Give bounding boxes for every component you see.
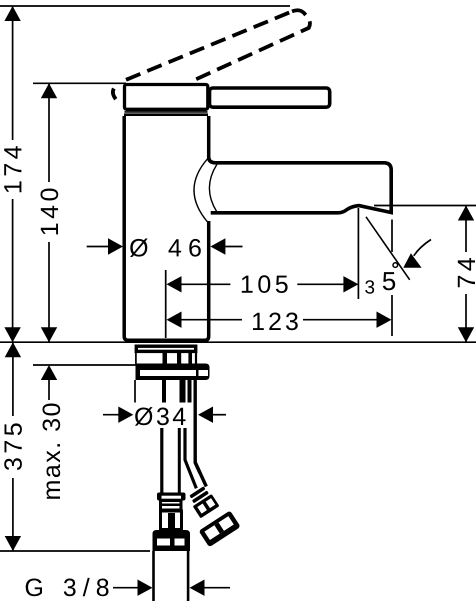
escutcheon bbox=[136, 346, 195, 351]
dimension 140 text bbox=[41, 188, 59, 234]
raised handle back-end dash bbox=[113, 89, 116, 100]
dimension 140 line bbox=[48, 83, 50, 342]
extension line aerator (105 right) bbox=[357, 208, 359, 299]
handle cap bbox=[125, 85, 208, 110]
reference line handle level (140) bbox=[33, 82, 126, 84]
joint lines under handle bbox=[125, 111, 208, 113]
straight connector neck bbox=[161, 501, 182, 512]
angled connector crimp ribs bbox=[189, 486, 209, 503]
straight connector hex body bbox=[161, 511, 182, 530]
dimension 74 text bbox=[458, 258, 475, 287]
lever arm bbox=[210, 88, 330, 107]
dimension 105 bbox=[167, 276, 182, 292]
hose tails above nut bbox=[163, 352, 168, 364]
faucet body fill bbox=[124, 116, 209, 340]
dimension 174 arrows bbox=[4, 6, 20, 21]
angled hose right wall with bend bbox=[195, 462, 206, 486]
angled connector body bbox=[193, 494, 220, 518]
straight hose walls bbox=[160, 427, 163, 493]
dimension 174 text bbox=[4, 146, 21, 192]
hose tails below nut bbox=[162, 380, 166, 404]
dimension max. 30 arrow bbox=[41, 365, 57, 380]
dimension diameter 34 text bbox=[135, 407, 186, 426]
angled hose right wall bbox=[195, 380, 200, 473]
spout outline bbox=[209, 157, 392, 213]
raised handle end and bottom edge (dashed) bbox=[190, 10, 310, 82]
reference line mounting surface bbox=[0, 341, 476, 343]
angled hose left wall with bend bbox=[185, 427, 196, 488]
dimension G 3/8 bbox=[26, 578, 109, 596]
dimension 74 line bbox=[465, 206, 467, 343]
reference line hose end (375 bottom) bbox=[0, 550, 150, 552]
reference line deck underside (max 30) bbox=[33, 364, 136, 366]
reference line top (tip of raised handle level) bbox=[0, 5, 290, 7]
dimension 375 arrows bbox=[5, 342, 21, 357]
35 degree text bbox=[365, 280, 374, 294]
dimension 140 arrows bbox=[41, 83, 57, 98]
straight connector crimp bbox=[157, 493, 186, 501]
dimension max. 30 text bbox=[43, 404, 61, 499]
dimension 74 arrows bbox=[458, 206, 474, 221]
mounting nut bbox=[136, 364, 210, 381]
dimension max. 30 stub line bbox=[48, 380, 50, 400]
dimension 174 line bbox=[12, 6, 14, 342]
junction curve outer bbox=[194, 159, 208, 223]
collar left wall bbox=[135, 352, 137, 364]
dimension 375 text bbox=[4, 423, 22, 470]
node centerline extension below body bbox=[165, 270, 167, 338]
angled connector nut bbox=[199, 510, 241, 547]
faucet body outline bbox=[124, 116, 209, 340]
dimension diameter 34 bbox=[103, 414, 120, 416]
dimension diameter 46 right arrow bbox=[210, 238, 225, 254]
dimension diameter 34 text backing bbox=[134, 403, 192, 429]
dimension diameter 46 text bbox=[130, 239, 201, 258]
G 3/8 tube bbox=[152, 551, 155, 601]
straight connector nut bbox=[153, 530, 191, 551]
35 degree curved arrow bbox=[414, 240, 431, 256]
reference line spout outlet (74 top) bbox=[374, 205, 476, 207]
raised handle top edge (dashed) bbox=[126, 11, 292, 79]
dimension diameter 46 left arrow bbox=[87, 246, 110, 248]
dimension 123 bbox=[167, 312, 182, 328]
35 degree slash line bbox=[366, 217, 410, 280]
extension line spout end (123 right) bbox=[391, 220, 393, 337]
junction curve inner bbox=[209, 164, 217, 211]
spout fill bbox=[208, 163, 391, 213]
dimension 375 line bbox=[12, 342, 14, 551]
shank left wall bbox=[134, 380, 136, 404]
collar right wall bbox=[195, 352, 197, 364]
